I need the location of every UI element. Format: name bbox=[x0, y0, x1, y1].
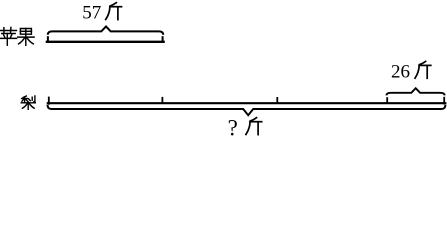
unit 斤 right bbox=[415, 61, 431, 78]
unit 斤 bottom bbox=[246, 118, 262, 135]
tick right end bbox=[443, 98, 445, 104]
top bar (apples) bbox=[47, 37, 164, 42]
underbrace ? bbox=[48, 105, 446, 116]
tick left end bbox=[48, 98, 50, 104]
svg-text:?: ? bbox=[228, 115, 238, 140]
overbrace 26 bbox=[387, 88, 445, 95]
overbrace 57 bbox=[48, 26, 163, 34]
svg-text:26: 26 bbox=[391, 62, 410, 83]
svg-text:57: 57 bbox=[82, 3, 101, 24]
tick 2 bbox=[276, 98, 278, 103]
label 梨 (pears) bbox=[21, 96, 35, 109]
label 苹果 (apples) bbox=[0, 27, 34, 45]
tick 3 bbox=[386, 98, 388, 103]
unit 斤 top bbox=[106, 3, 122, 20]
bottom bar (pears) bbox=[48, 98, 446, 104]
tick 1 bbox=[161, 98, 163, 103]
